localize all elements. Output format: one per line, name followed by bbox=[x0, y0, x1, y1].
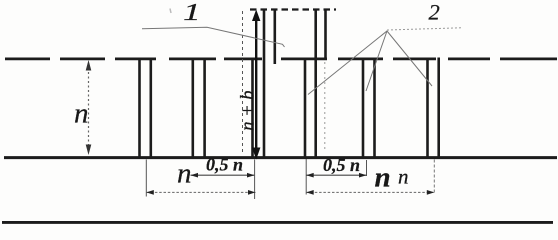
svg-text:n: n bbox=[74, 98, 89, 130]
svg-text:n: n bbox=[398, 165, 409, 189]
svg-text:n: n bbox=[375, 162, 391, 194]
svg-text:n: n bbox=[177, 158, 192, 190]
svg-text:1: 1 bbox=[183, 0, 200, 26]
svg-text:0,5 n: 0,5 n bbox=[323, 155, 360, 175]
svg-text:0,5 n: 0,5 n bbox=[206, 155, 243, 175]
svg-text:n + b: n + b bbox=[239, 90, 259, 130]
svg-text:2: 2 bbox=[429, 0, 440, 25]
